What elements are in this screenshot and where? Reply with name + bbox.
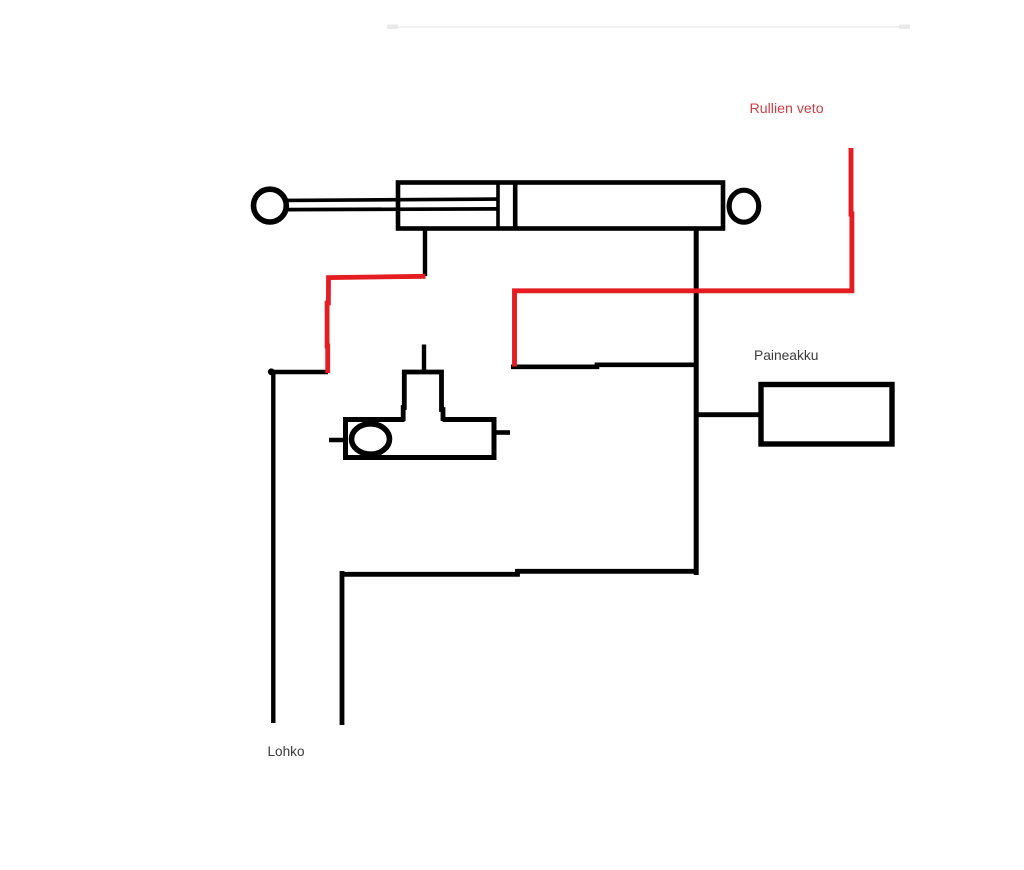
valve V1 right stub <box>494 430 510 435</box>
wire: second vertical down to Lohko <box>340 571 345 725</box>
svg-text:Paineakku: Paineakku <box>754 348 818 363</box>
red wire: rod-side hose to Rullien veto branch <box>327 276 425 373</box>
wire: Lohko left vertical down <box>271 371 275 723</box>
cylinder C1 piston rod (double line) <box>286 199 500 200</box>
valve V1 body (top edge open at neck) <box>346 420 495 458</box>
wire: bottom return run with jog <box>342 571 698 574</box>
wire: cylinder cap-side port down to bottom run (long vertical) <box>694 228 699 575</box>
cylinder C1 piston <box>496 182 500 228</box>
valve V1 left stub <box>329 438 346 443</box>
wire: Lohko branch corner (horizontal) <box>271 370 328 375</box>
wire: middle horizontal to long vertical (y=366) <box>511 365 695 367</box>
cylinder C1 rod eye (left circle) <box>254 189 287 222</box>
wire: cylinder rod-side port stub <box>423 228 427 276</box>
wire: Lohko branch corner dot <box>268 368 275 375</box>
wire: accumulator connector <box>694 412 761 417</box>
faint top divider line <box>392 26 910 28</box>
cylinder C1 body <box>398 183 723 229</box>
valve V1 roller ellipse <box>352 424 390 454</box>
svg-text:Rullien veto: Rullien veto <box>750 101 824 117</box>
cylinder C1 cap end knob (right circle) <box>729 190 759 222</box>
valve V1 top pilot stub <box>422 345 426 373</box>
valve V1 neck (T riser) <box>403 372 443 421</box>
accumulator (Paineakku) box <box>761 385 892 445</box>
red wire: Rullien veto feed line <box>515 148 852 367</box>
svg-text:Lohko: Lohko <box>268 744 305 759</box>
